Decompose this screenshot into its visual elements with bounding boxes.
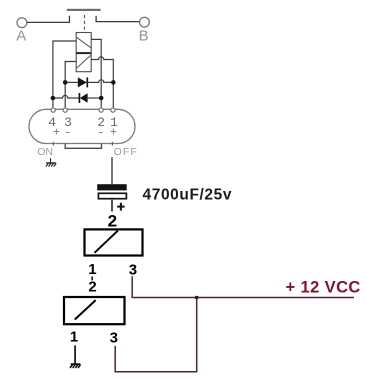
junction pin1/D1 xyxy=(111,80,116,85)
svg-text:OFF: OFF xyxy=(114,146,138,158)
lower cell diagonal xyxy=(77,55,91,68)
rocker switch body (oval) xyxy=(29,109,135,143)
svg-text:-: - xyxy=(97,125,104,139)
svg-text:2: 2 xyxy=(108,212,117,231)
relay K2 lever xyxy=(75,300,96,319)
wire bottom diode row left (hop over pin3 wire) xyxy=(53,95,79,98)
wire B to switch xyxy=(96,16,139,22)
pin 3 terminal xyxy=(63,108,67,112)
junction pin4/D2 xyxy=(51,96,56,101)
wire box lower-right to pin1 (hop over pin2 wire) xyxy=(91,57,113,108)
svg-text:A: A xyxy=(16,27,26,44)
svg-text:+ 12 VCC: + 12 VCC xyxy=(286,278,361,296)
svg-text:3: 3 xyxy=(129,261,137,278)
label + (capacitor polarity) xyxy=(117,203,124,211)
pin 2 terminal xyxy=(99,108,103,112)
box divider xyxy=(76,52,91,54)
svg-text:1: 1 xyxy=(70,329,78,346)
pin 4 terminal xyxy=(51,108,55,112)
ground G2 (K2 pin1) xyxy=(70,345,81,368)
svg-text:+: + xyxy=(110,125,117,139)
junction pin2/D2 xyxy=(99,96,104,101)
dashed link K1 pin1 to K2 xyxy=(91,277,93,281)
+12V wire from K1 pin3 xyxy=(132,276,354,297)
svg-text:1: 1 xyxy=(88,261,96,278)
relay K1 lever xyxy=(95,231,118,253)
svg-text:2: 2 xyxy=(88,279,96,296)
diode D1 (anode left) xyxy=(78,77,87,87)
capacitor C1 negative plate xyxy=(98,193,126,198)
wire top diode row right (hop over pin2 wire) xyxy=(88,80,114,83)
mounting tab bracket xyxy=(65,143,101,148)
ON position tick xyxy=(52,142,54,146)
wire top diode row left xyxy=(65,81,78,83)
wire bottom diode row right xyxy=(88,97,102,99)
capacitor C1 positive plate xyxy=(97,184,127,190)
svg-text:ON: ON xyxy=(37,146,53,158)
relay K1 box xyxy=(85,229,143,255)
svg-text:-: - xyxy=(64,125,71,139)
motor/actuator box M xyxy=(76,33,91,72)
wire box upper-right to pin2 xyxy=(91,39,101,107)
svg-text:4700uF/25v: 4700uF/25v xyxy=(143,186,233,203)
wire pin3 to box lower-left xyxy=(65,62,76,108)
ground G1 (ON side) xyxy=(46,158,56,166)
pin 1 terminal xyxy=(111,108,115,112)
wire A to switch xyxy=(27,16,70,23)
wire OFF pin to capacitor xyxy=(111,157,113,184)
switch contact bar S1 xyxy=(67,9,101,11)
actuator dashed link xyxy=(84,15,86,32)
terminal A circle xyxy=(17,18,27,28)
junction square on +12V rail xyxy=(195,296,198,299)
diode D2 (cathode left) xyxy=(78,93,80,103)
OFF position tick xyxy=(111,142,113,146)
junction pin3/D1 xyxy=(63,80,68,85)
wire K2 pin3 to +12V rail xyxy=(115,298,197,372)
terminal B circle xyxy=(140,17,150,27)
svg-text:+: + xyxy=(53,125,60,139)
svg-text:3: 3 xyxy=(110,330,118,347)
upper cell diagonal xyxy=(77,37,91,48)
wire pin4 to box upper-left xyxy=(53,41,76,108)
capacitor lead xyxy=(111,200,113,212)
svg-text:B: B xyxy=(139,27,149,44)
relay K2 box xyxy=(64,297,125,324)
